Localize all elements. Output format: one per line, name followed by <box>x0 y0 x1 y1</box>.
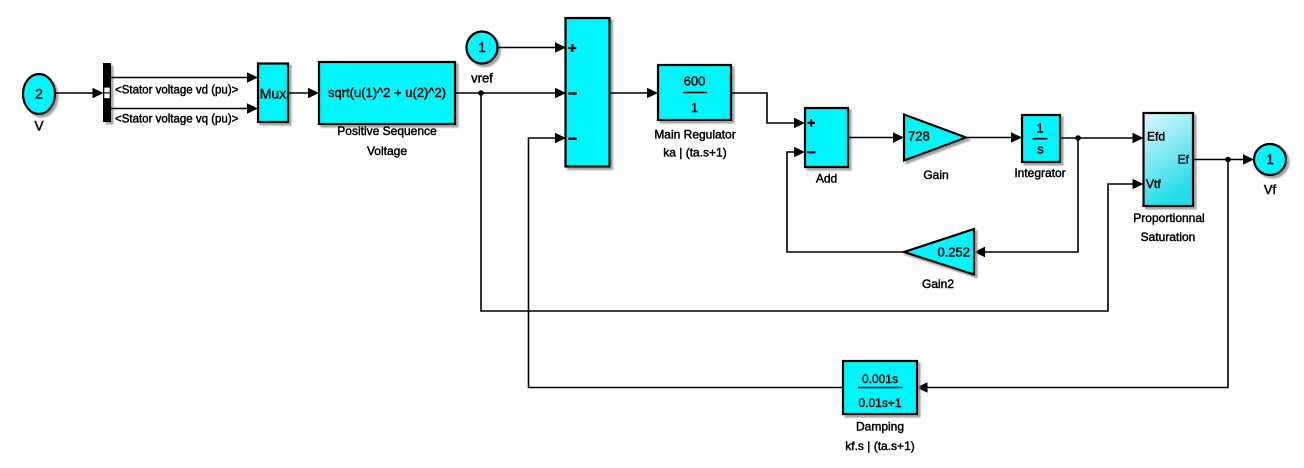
svg-text:Positive Sequence: Positive Sequence <box>337 124 437 138</box>
svg-text:1: 1 <box>478 39 486 55</box>
Damping block <box>843 361 917 453</box>
Positive Sequence Voltage block (sqrt) <box>319 62 455 158</box>
wire vq: bus selector to Mux <box>111 103 258 113</box>
junction node Vt <box>478 90 484 96</box>
junction node Efd <box>1075 135 1081 141</box>
svg-text:Gain: Gain <box>923 168 948 182</box>
wire Gain to Integrator <box>967 132 1022 142</box>
svg-text:ka | (ta.s+1): ka | (ta.s+1) <box>663 146 726 160</box>
svg-text:Integrator: Integrator <box>1014 166 1065 180</box>
svg-text:Efd: Efd <box>1147 130 1165 144</box>
svg-text:Saturation: Saturation <box>1141 230 1196 244</box>
svg-text:sqrt(u(1)^2 + u(2)^2): sqrt(u(1)^2 + u(2)^2) <box>328 85 446 100</box>
wire Damping to Sum (3rd input) <box>529 133 844 388</box>
svg-text:Vtf: Vtf <box>1146 177 1161 191</box>
Sum block <box>566 18 610 167</box>
Mux block <box>258 64 288 123</box>
inport V (2) <box>23 74 55 134</box>
Gain block (728) <box>904 115 966 183</box>
svg-text:s: s <box>1037 142 1044 157</box>
svg-text:Voltage: Voltage <box>367 144 407 158</box>
wire Vt feedback to Vtf input of saturation <box>481 93 1144 311</box>
svg-text:Proportionnal: Proportionnal <box>1133 211 1204 225</box>
wire Main Regulator to Add (+ input) <box>731 93 805 128</box>
svg-text:1: 1 <box>691 100 698 115</box>
svg-text:Gain2: Gain2 <box>922 277 954 291</box>
svg-text:0.252: 0.252 <box>937 245 970 260</box>
svg-text:2: 2 <box>35 86 43 102</box>
svg-text:600: 600 <box>684 74 706 89</box>
Main Regulator block <box>654 65 735 160</box>
svg-text:Vf: Vf <box>1264 182 1277 197</box>
svg-text:0.01s+1: 0.01s+1 <box>858 396 901 410</box>
svg-text:vref: vref <box>471 71 493 86</box>
wire Integrator to Efd input of saturation <box>1060 133 1144 143</box>
Integrator block <box>1014 115 1065 180</box>
svg-text:<Stator voltage vq (pu)>: <Stator voltage vq (pu)> <box>115 114 239 126</box>
svg-text:728: 728 <box>908 129 930 144</box>
wire Gain2 to Add (- input) <box>787 147 904 252</box>
svg-text:1: 1 <box>1266 151 1274 167</box>
svg-text:kf.s | (ta.s+1): kf.s | (ta.s+1) <box>845 439 914 453</box>
inport vref (1) <box>467 32 498 86</box>
wire vd: bus selector to Mux <box>111 72 258 82</box>
svg-text:0.001s: 0.001s <box>862 372 898 386</box>
svg-text:Add: Add <box>816 172 837 186</box>
junction node Ef <box>1225 157 1231 163</box>
svg-text:Main Regulator: Main Regulator <box>654 128 735 142</box>
wire Ef to outport Vf <box>1193 154 1254 164</box>
wire vref to Sum (1st input) <box>498 42 567 52</box>
svg-text:V: V <box>34 118 44 134</box>
Add block <box>805 108 848 186</box>
outport Vf (1) <box>1254 144 1286 197</box>
svg-text:<Stator voltage vd (pu)>: <Stator voltage vd (pu)> <box>115 85 239 97</box>
wire Mux to sqrt block <box>288 88 319 98</box>
wire V to bus selector <box>55 88 104 98</box>
bus selector <box>103 63 111 122</box>
wire sqrt to Sum (2nd input) <box>455 88 566 98</box>
svg-text:Mux: Mux <box>260 86 286 102</box>
Proportionnal Saturation block <box>1133 113 1204 244</box>
svg-text:Damping: Damping <box>856 420 904 434</box>
svg-text:1: 1 <box>1036 121 1043 136</box>
wire Add to Gain <box>848 132 904 142</box>
Gain2 block (0.252) <box>904 229 974 291</box>
wire Sum to Main Regulator <box>610 88 659 98</box>
wire Ef junction down to Damping input <box>917 160 1229 393</box>
svg-text:Ef: Ef <box>1178 153 1190 167</box>
wire Efd junction down to Gain2 input <box>974 138 1078 257</box>
